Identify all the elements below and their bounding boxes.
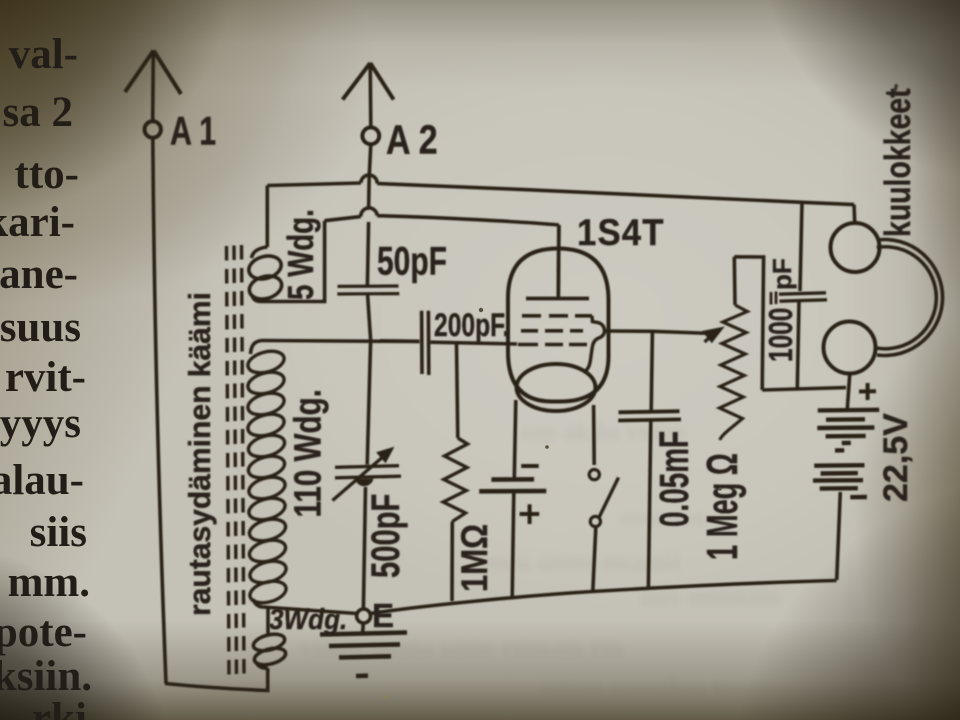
svg-text:3Wdg.: 3Wdg. [269,603,347,636]
svg-text:0.05mF: 0.05mF [652,431,698,527]
svg-text:pote-: pote- [0,609,87,656]
svg-text:pF: pF [767,258,797,290]
svg-text:ane-: ane- [0,251,78,298]
svg-text:rvit-: rvit- [5,354,86,401]
svg-text:22,5V: 22,5V [877,413,915,502]
svg-text:muu unnu nuamit: muu unnu nuamit [480,547,681,576]
svg-text:A 2: A 2 [386,117,438,163]
svg-text:mm.: mm. [8,559,90,606]
svg-text:val-: val- [9,31,78,78]
svg-text:yyys: yyys [0,400,81,447]
svg-text:1000: 1000 [764,308,800,362]
svg-text:siis: siis [30,509,87,556]
svg-text:rki: rki [32,695,87,720]
svg-text:1 Meg Ω: 1 Meg Ω [697,453,746,560]
svg-text:5 Wdg.: 5 Wdg. [281,209,321,300]
svg-text:kari-: kari- [0,199,75,246]
svg-text:110 Wdg.: 110 Wdg. [287,389,329,517]
svg-text:ksiin.: ksiin. [0,653,92,700]
svg-text:500pF: 500pF [364,494,409,578]
svg-text:alau-: alau- [0,457,84,504]
svg-text:200pF.: 200pF. [434,308,509,344]
svg-text:rautasydäminen käämi: rautasydäminen käämi [183,292,218,616]
svg-text:1MΩ: 1MΩ [455,524,496,592]
svg-text:1S4T: 1S4T [577,212,665,253]
svg-text:50pF: 50pF [377,239,447,283]
svg-text:nuam unmthm vmas: nuam unmthm vmas [540,672,770,701]
svg-text:sa 2: sa 2 [3,89,73,136]
svg-text:E: E [372,597,394,634]
svg-text:tto-: tto- [15,151,79,198]
svg-text:kuulokkeet: kuulokkeet [878,88,918,237]
svg-text:suus: suus [0,304,81,351]
svg-text:A 1: A 1 [170,108,216,153]
